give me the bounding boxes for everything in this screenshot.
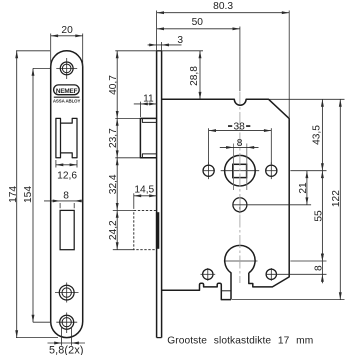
dim line 43,5/55/8 column <box>321 99 323 283</box>
svg-text:24,2: 24,2 <box>108 220 119 240</box>
latch cutout front view <box>56 118 77 157</box>
dim line 122 <box>339 99 341 299</box>
top screw vertical crosshair <box>66 58 68 79</box>
svg-text:ASSA ABLOY: ASSA ABLOY <box>53 99 81 104</box>
dim line 154 <box>32 68 34 322</box>
ext latch bottom <box>115 157 140 159</box>
ext 38 right <box>270 128 272 164</box>
dim line 14,5 <box>134 195 157 197</box>
dim line 5,8 <box>48 342 86 344</box>
ext bolt top <box>113 209 134 211</box>
spindle crosshair horizontal <box>221 170 260 172</box>
ext spindle level right <box>290 170 326 172</box>
ext line plate top level <box>115 50 203 52</box>
lock case bottom edge with notches and cylinder tab <box>162 283 231 299</box>
ext bottom hole level right <box>266 273 327 275</box>
svg-text:14,5: 14,5 <box>134 185 154 196</box>
dim line 174 <box>16 51 18 338</box>
ext under square left <box>233 144 235 191</box>
svg-text:23,7: 23,7 <box>108 128 119 148</box>
svg-text:28,8: 28,8 <box>189 66 200 86</box>
svg-text:3: 3 <box>177 35 183 46</box>
plate bar top end <box>157 50 162 52</box>
faceplate side view front edge <box>156 51 158 338</box>
right M5 crosshair v <box>270 162 272 179</box>
dim line 8 spindle <box>220 146 259 148</box>
svg-text:80.3: 80.3 <box>213 1 233 12</box>
svg-text:21: 21 <box>298 182 309 194</box>
svg-text:40,7: 40,7 <box>108 75 119 95</box>
svg-text:174: 174 <box>8 186 19 203</box>
latch side view outline <box>140 118 156 157</box>
ext 20 right <box>82 34 84 67</box>
svg-text:11: 11 <box>143 94 154 105</box>
ext case top right <box>270 98 345 100</box>
extension line 154 bottom <box>33 321 51 323</box>
ext middle hole level <box>233 204 311 206</box>
bottom left hole <box>203 269 213 279</box>
ext 80,3 right at case edge <box>288 11 290 120</box>
ext under square right <box>246 144 248 191</box>
deadbolt section black bar <box>156 212 159 249</box>
ext 20 left <box>50 34 52 67</box>
svg-text:Grootste slotkastdikte 17 mm: Grootste slotkastdikte 17 mm <box>167 335 313 346</box>
spindle follower circle <box>225 155 256 186</box>
NEMEF logo oval <box>54 85 80 95</box>
ext 11 left <box>139 102 141 117</box>
mid hole crosshair h <box>55 292 79 294</box>
latch side inner top lip <box>142 118 156 122</box>
right M5 crosshair h <box>266 170 278 172</box>
ext latch top <box>115 117 140 119</box>
ext 8 right <box>73 203 75 208</box>
svg-text:50: 50 <box>192 17 204 28</box>
ext 12,6 left <box>55 160 57 168</box>
vertical centerline <box>239 92 241 284</box>
cylinder euro profile hole <box>225 245 255 299</box>
dim line stack 40,7/23,7/32,4/24,2 <box>116 51 118 250</box>
extension line 154 top <box>33 67 50 69</box>
dim line 80,3 <box>157 12 290 14</box>
bottom right hole crosshair v <box>270 268 272 281</box>
ext 38 left <box>208 128 210 164</box>
left M5 crosshair v <box>208 162 210 179</box>
mid hole outer <box>59 285 74 300</box>
deadbolt cutout front view <box>60 210 74 249</box>
dim line 8 front <box>44 200 84 202</box>
top screw hole outer <box>60 62 73 75</box>
ext 14,5 left <box>133 193 135 209</box>
right M5 hole <box>266 165 277 176</box>
lock case outline <box>162 99 290 287</box>
svg-text:38: 38 <box>234 122 246 133</box>
mid hole crosshair v <box>66 283 68 303</box>
bottom right hole <box>266 269 276 279</box>
faceplate side view back edge <box>161 51 163 338</box>
dim line 20 <box>51 35 83 37</box>
bottom screw crosshair h <box>56 321 77 323</box>
latch inner bar line <box>60 123 62 153</box>
dim line 38 <box>209 130 272 132</box>
ext 3 right at plate back <box>161 42 163 51</box>
dim line 28,8 <box>199 51 201 100</box>
svg-text:20: 20 <box>61 25 73 36</box>
ext 50 right down to case notch <box>239 27 241 92</box>
svg-text:8: 8 <box>63 191 69 202</box>
ext bolt bottom <box>113 249 134 251</box>
svg-text:32,4: 32,4 <box>108 174 119 194</box>
svg-text:55: 55 <box>314 210 325 222</box>
middle hole crosshair v <box>239 197 241 214</box>
ext tab bottom level <box>232 299 345 301</box>
line under logo <box>54 96 80 98</box>
plate bar bottom end <box>157 337 162 339</box>
svg-text:8: 8 <box>237 138 243 149</box>
cylinder crosshair h <box>224 260 258 262</box>
svg-text:12,6: 12,6 <box>57 170 77 181</box>
cylinder tab fold line <box>221 290 231 292</box>
dim line 50 <box>157 28 240 30</box>
bottom screw crosshair v <box>66 313 68 334</box>
ext 174 top <box>16 50 50 52</box>
top screw crosshair h <box>56 67 77 69</box>
ext 8 left <box>59 203 61 208</box>
ext 80,3/50/3 left at plate front <box>156 11 158 51</box>
bottom left hole crosshair v <box>207 268 209 281</box>
middle hole below spindle <box>233 198 247 212</box>
dim line 12,6 <box>56 164 77 166</box>
bottom screw inner <box>62 318 71 327</box>
left M5 hole <box>203 165 214 176</box>
dim line 21 <box>306 171 308 205</box>
ext 12,6 right <box>76 160 78 168</box>
ext 5,8 left <box>61 327 63 346</box>
ext cylinder level right <box>290 260 326 262</box>
dim line 3 <box>148 44 182 46</box>
bottom left hole crosshair h <box>201 273 216 275</box>
mid hole inner <box>62 288 71 297</box>
deadbolt side view (hidden dashed) <box>134 210 157 249</box>
bottom screw outer <box>60 315 74 329</box>
svg-text:8: 8 <box>314 265 325 271</box>
svg-text:122: 122 <box>331 190 342 207</box>
svg-text:43,5: 43,5 <box>312 125 323 145</box>
spindle square 8mm <box>233 164 247 177</box>
svg-text:154: 154 <box>23 186 34 203</box>
latch side inner bottom lip <box>142 154 156 158</box>
ext 174 bottom <box>16 337 58 339</box>
dim line 11 <box>134 103 157 105</box>
left M5 crosshair h <box>203 170 215 172</box>
svg-text:5,8(2x): 5,8(2x) <box>49 345 84 355</box>
top screw hole inner <box>62 64 71 73</box>
svg-text:NEMEF: NEMEF <box>56 88 78 95</box>
ext 5,8 right <box>71 327 73 346</box>
faceplate front view outline <box>51 51 83 338</box>
